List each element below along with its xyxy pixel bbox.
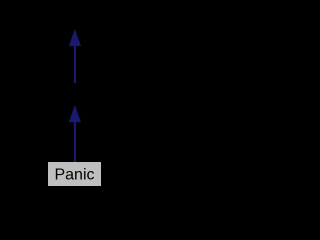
arrowhead: lower inheritance edge [69,106,80,121]
node Panic: box [48,162,101,186]
wire: lower inheritance edge shaft [74,120,76,162]
wire: upper inheritance edge shaft [74,44,76,83]
svg-text:Panic: Panic [54,167,94,184]
arrowhead: upper inheritance edge [69,30,80,45]
